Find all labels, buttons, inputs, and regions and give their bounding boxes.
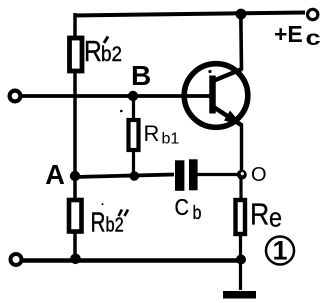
svg-text:R: R [84, 35, 102, 67]
svg-text:R: R [91, 208, 106, 239]
svg-text:c: c [306, 27, 321, 50]
svg-text:R: R [250, 198, 269, 232]
svg-text:b2: b2 [106, 213, 124, 236]
svg-text:1: 1 [272, 236, 287, 266]
svg-text:b1: b1 [162, 131, 180, 148]
svg-text:b2: b2 [101, 43, 122, 66]
svg-text:b: b [193, 202, 202, 224]
svg-text:R: R [144, 121, 160, 146]
svg-text:B: B [131, 60, 151, 91]
svg-text:+E: +E [274, 21, 303, 47]
svg-text:C: C [175, 194, 189, 221]
svg-text:e: e [269, 204, 282, 232]
svg-text:O: O [251, 164, 267, 186]
svg-text:A: A [45, 159, 65, 190]
